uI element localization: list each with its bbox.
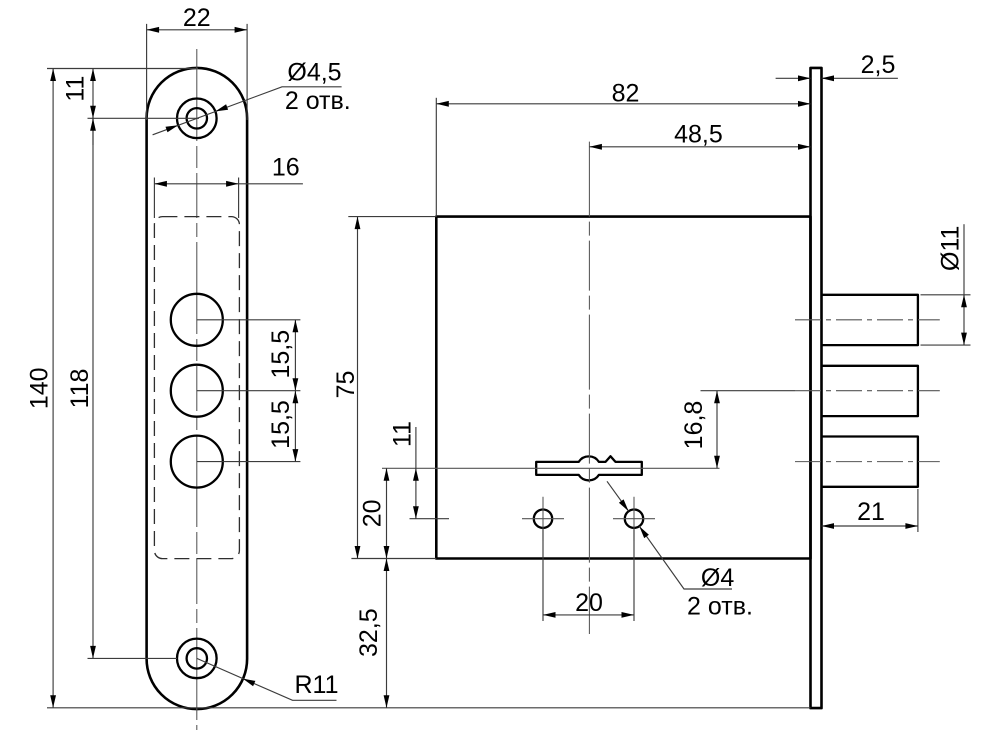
dimension 75 top extension line: [348, 216, 436, 218]
svg-text:16: 16: [272, 154, 300, 182]
dimension 21 extension line: [917, 489, 919, 532]
bolt hole circle 3: [171, 436, 223, 488]
dimension 21 line and arrows: [822, 525, 918, 527]
faceplate vertical centerline: [196, 49, 198, 730]
bolt 1 outline: [822, 295, 918, 345]
svg-text:22: 22: [183, 4, 211, 32]
dimension 16,8 extension line: [701, 390, 796, 392]
dimension 2,5 lines and arrows: [776, 77, 811, 79]
dimension 48,5 line and arrows: [589, 146, 810, 148]
dimension 118 bottom extension line: [88, 657, 178, 659]
R11 leader line: [197, 658, 337, 700]
bolt hole center extension lines: [197, 320, 301, 462]
bolt hole circle 2: [171, 365, 223, 417]
svg-text:2,5: 2,5: [861, 51, 896, 79]
svg-text:15,5: 15,5: [267, 400, 295, 449]
bottom screw hole countersink circle: [177, 639, 217, 679]
svg-text:11: 11: [389, 421, 417, 447]
dimension 11 right line and arrows: [415, 427, 417, 519]
Ø4 leader line: [639, 526, 732, 589]
dimension 11 top extension line: [47, 68, 198, 70]
svg-text:2 отв.: 2 отв.: [285, 87, 351, 115]
dimension 16 extension lines: [154, 178, 238, 219]
bolt 2 centerline: [795, 390, 940, 392]
bolt 3 outline: [822, 437, 918, 487]
dimension 16,8 line and arrows: [716, 391, 718, 469]
svg-text:2 отв.: 2 отв.: [687, 593, 753, 621]
svg-text:20: 20: [359, 499, 387, 527]
svg-text:Ø4: Ø4: [701, 564, 734, 592]
svg-text:Ø11: Ø11: [936, 226, 964, 271]
keyhole horizontal centerline: [382, 467, 720, 469]
dimension 15,5 upper line and arrows: [294, 320, 296, 391]
bottom extension line: [47, 707, 811, 709]
fixing hole right Ø4: [625, 510, 643, 528]
dimension Ø11 line and arrows: [963, 224, 965, 345]
bolt 2 outline: [822, 366, 918, 416]
dimension 75 line and arrows: [357, 217, 359, 559]
top screw hole countersink circle: [177, 99, 217, 139]
keyhole vertical centerline: [588, 142, 590, 634]
svg-text:16,8: 16,8: [680, 401, 708, 450]
fixing hole right crosshair: [613, 497, 655, 541]
svg-text:32,5: 32,5: [355, 608, 383, 657]
dimension 140 line and arrows: [52, 69, 54, 708]
dimension 20 horizontal line and arrows: [543, 614, 634, 616]
bottom screw hole Ø4,5 circle: [187, 648, 207, 668]
svg-text:21: 21: [857, 498, 885, 526]
dimension Ø11 extension lines: [921, 295, 971, 345]
fixing hole left crosshair: [522, 497, 564, 541]
bolt hole circle 1: [171, 294, 223, 346]
dashed body projection rectangle: [154, 217, 239, 559]
svg-text:82: 82: [612, 80, 640, 108]
svg-text:140: 140: [26, 367, 54, 409]
svg-text:75: 75: [332, 371, 360, 399]
dimension 22 line and arrows: [147, 29, 248, 31]
dimension 11 line and arrows: [92, 69, 94, 146]
dimension 82 line and arrows: [436, 103, 810, 105]
Ø4,5 leader line: [153, 87, 342, 135]
faceplate outline (stadium, R11 corners): [147, 68, 248, 709]
keyhole outline: [536, 456, 642, 480]
svg-text:11: 11: [62, 76, 90, 102]
dimension 118 line and arrows: [92, 118, 94, 658]
dimension 22 extension lines: [147, 24, 248, 120]
dimension 11 hole-center extension line: [88, 117, 200, 119]
dimension 82 left extension line: [435, 98, 437, 217]
svg-text:48,5: 48,5: [674, 121, 723, 149]
fixing holes centerline extension: [410, 518, 450, 520]
top screw hole Ø4,5 circle: [187, 108, 207, 128]
body bottom extension line: [351, 558, 436, 560]
dimension 20 horizontal extension lines: [543, 528, 634, 621]
svg-text:Ø4,5: Ø4,5: [287, 58, 341, 86]
keyhole-to-hole leader arrow: [607, 481, 629, 511]
dimension 20 vertical line and arrows: [386, 468, 388, 558]
bolt 1 centerline: [795, 319, 940, 321]
fixing hole left Ø4: [534, 510, 552, 528]
lock body outline: [436, 217, 810, 559]
faceplate edge strip: [811, 68, 822, 708]
dimension 32,5 line and arrows: [386, 559, 388, 708]
svg-text:118: 118: [66, 369, 94, 409]
dimension 15,5 lower line and arrows: [294, 391, 296, 462]
dimension 16 line and arrows: [154, 183, 303, 185]
bolt 3 centerline: [795, 461, 940, 463]
svg-text:R11: R11: [294, 671, 338, 699]
svg-text:20: 20: [575, 589, 603, 617]
svg-text:15,5: 15,5: [267, 330, 295, 379]
